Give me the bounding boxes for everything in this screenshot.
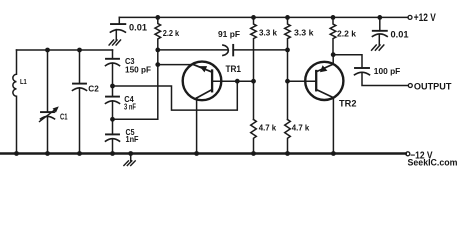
inductor L1 [13,50,17,154]
resistor R1 2.2k [155,17,161,64]
svg-text:OUTPUT: OUTPUT [414,82,452,92]
node rail-TR2 collector [331,151,336,156]
capacitor C3 [106,50,120,97]
terminal OUTPUT [408,84,412,88]
transistor TR2 [305,62,343,100]
node emitter TR1 [155,62,160,67]
svg-text:3.3 k: 3.3 k [294,28,314,38]
resistor R5 2.2k [330,17,336,54]
svg-text:L1: L1 [20,77,27,86]
wire TR2 base [288,80,316,82]
node rail-C1 [45,151,50,156]
svg-text:4.7 k: 4.7 k [259,123,277,133]
svg-text:2.2 k: 2.2 k [337,28,356,38]
svg-text:4.7 k: 4.7 k [292,123,310,133]
node rail-ground [128,151,133,156]
node rail-TR1 collector [194,151,199,156]
wire emitter TR1 [158,64,194,66]
node base TR1 coupling [235,79,240,84]
capacitor 0.01 (right bypass) [372,17,387,44]
capacitor C2 [73,50,87,154]
transistor TR1 [183,62,222,101]
wire C3 bottom to TR1 base (coupling) [113,81,238,110]
svg-text:TR2: TR2 [339,98,357,109]
node base TR2 bias [285,79,290,84]
capacitor 100pF [355,68,370,75]
ground (left bypass) [109,40,120,45]
svg-text:SeekIC.com: SeekIC.com [408,157,458,168]
capacitor 0.01 (left bypass) [110,17,125,39]
node C4-C5 [110,117,115,122]
node emitter-91pF [155,48,160,53]
wire C4/C5 tap riser to emitter node [113,65,158,120]
terminal +12V [408,15,412,19]
capacitor 91pF [223,45,233,56]
wire 100pF to OUTPUT [362,72,408,85]
ground (bottom rail center) [124,155,135,166]
node rail-R1 [155,15,160,20]
wire TR2 collector to bottom rail [332,98,334,154]
node bus-C2 [77,48,82,53]
node C3-C4 [110,84,115,89]
node rail-R6 [285,151,290,156]
wire TR2 emitter riser [332,55,334,64]
wire TR1 collector to bottom rail [196,98,198,154]
svg-text:150 pF: 150 pF [125,64,151,74]
resistor R3 3.3k [285,17,291,119]
svg-text:0.01: 0.01 [391,29,409,39]
node rail-L1 [14,151,19,156]
node rail-0.01 [377,15,382,20]
wire 91pF coupling right [233,49,287,51]
svg-text:TR1: TR1 [226,64,242,75]
wire top supply rail +12V [119,16,408,18]
svg-text:C1: C1 [60,112,68,121]
node 91pF-R3 [285,48,290,53]
svg-text:0.01: 0.01 [129,22,147,32]
capacitor C1 (variable) [40,50,59,154]
resistor R4 4.7k [251,120,257,154]
node emitter TR2 [331,52,336,57]
node bus-C1 [45,48,50,53]
resistor R2 3.3k [251,17,257,119]
wire 91pF coupling left [158,49,228,51]
node rail-R5 [331,15,336,20]
svg-text:C2: C2 [88,83,99,93]
node rail-C2 [77,151,82,156]
svg-text:+12 V: +12 V [414,12,436,24]
node rail-C5 [110,151,115,156]
svg-text:1nF: 1nF [126,134,139,144]
resistor R6 4.7k [285,120,291,154]
capacitor C5 [106,134,120,153]
svg-text:3 nF: 3 nF [124,102,136,112]
ground (right bypass) [372,45,384,50]
svg-text:91 pF: 91 pF [218,29,240,39]
node rail-R3 [285,15,290,20]
node base TR1 bias [251,79,256,84]
wire bottom supply rail -12V [1,152,406,154]
node rail-R4 [251,151,256,156]
wire TR1 base [213,80,253,82]
svg-text:100 pF: 100 pF [374,66,401,76]
terminal -12V [406,152,410,156]
wire tank top bus [17,49,113,51]
svg-text:2.2 k: 2.2 k [163,28,180,38]
wire TR2 emitter node to 100pF [333,55,362,68]
node rail-R2 [251,15,256,20]
capacitor C4 [106,97,120,135]
svg-text:3.3 k: 3.3 k [259,28,277,38]
